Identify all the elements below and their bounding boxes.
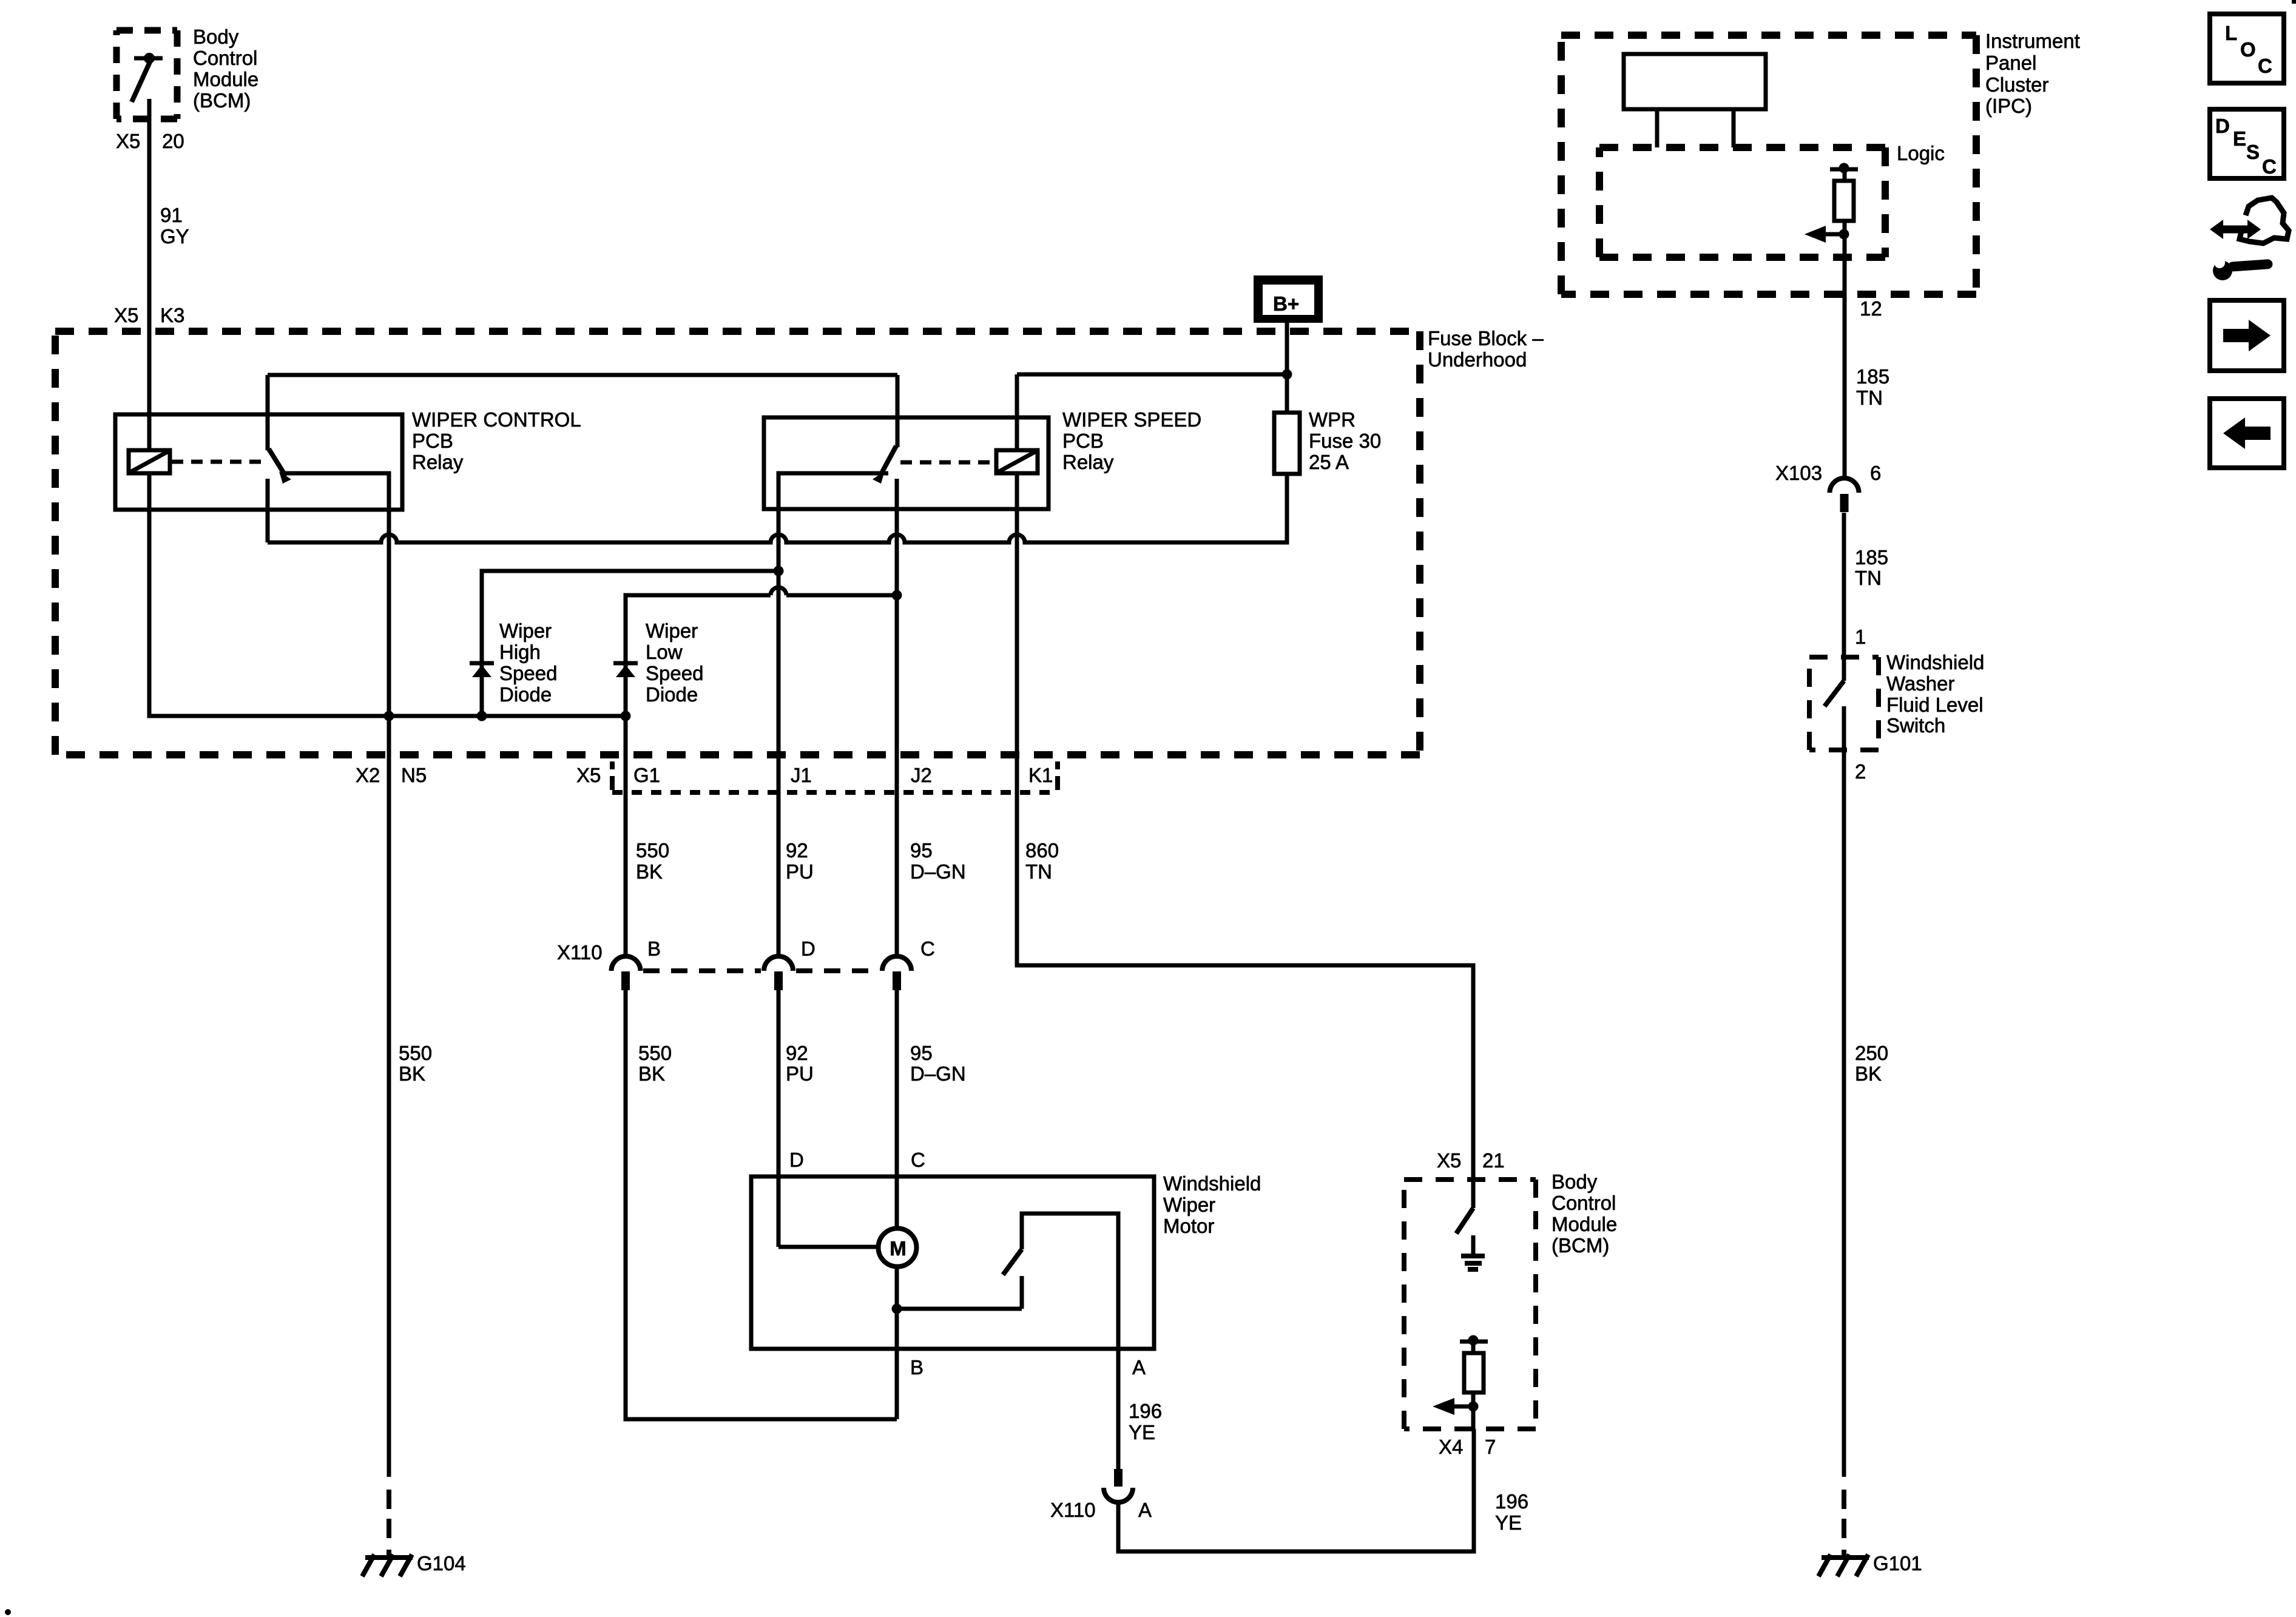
svg-text:X5: X5 [114, 304, 138, 326]
svg-text:K1: K1 [1028, 764, 1053, 786]
svg-text:High: High [499, 641, 541, 663]
svg-text:550: 550 [638, 1042, 672, 1064]
svg-text:GY: GY [160, 225, 189, 248]
svg-text:(BCM): (BCM) [193, 89, 251, 112]
svg-text:X110: X110 [557, 941, 603, 964]
svg-text:Windshield: Windshield [1886, 651, 1984, 673]
svg-text:Diode: Diode [499, 683, 552, 706]
svg-text:X110: X110 [1050, 1499, 1096, 1521]
svg-text:C: C [2262, 155, 2277, 178]
svg-text:12: 12 [1860, 297, 1882, 320]
svg-text:6: 6 [1870, 462, 1881, 484]
svg-text:Wiper: Wiper [499, 619, 552, 642]
svg-text:860: 860 [1025, 839, 1059, 862]
svg-text:G104: G104 [417, 1552, 466, 1575]
svg-text:X5: X5 [1437, 1149, 1461, 1172]
svg-text:185: 185 [1856, 365, 1889, 388]
svg-text:250: 250 [1855, 1042, 1888, 1064]
svg-text:O: O [2240, 38, 2256, 61]
svg-text:B: B [910, 1356, 923, 1379]
svg-text:Module: Module [1551, 1213, 1617, 1235]
svg-text:D: D [2215, 115, 2230, 137]
svg-text:7: 7 [1485, 1436, 1496, 1458]
svg-text:BK: BK [1855, 1062, 1882, 1085]
svg-text:Speed: Speed [646, 662, 703, 684]
svg-text:550: 550 [636, 839, 669, 862]
svg-text:196: 196 [1129, 1400, 1162, 1422]
svg-text:1: 1 [1855, 626, 1866, 648]
svg-text:B: B [647, 937, 661, 960]
svg-text:WIPER CONTROL: WIPER CONTROL [412, 408, 581, 431]
svg-text:TN: TN [1856, 387, 1883, 409]
svg-text:Instrument: Instrument [1985, 30, 2080, 52]
svg-text:95: 95 [910, 839, 933, 862]
svg-text:PCB: PCB [412, 430, 453, 452]
svg-text:Fuse Block –: Fuse Block – [1428, 327, 1544, 349]
svg-text:Washer: Washer [1886, 672, 1954, 695]
svg-text:21: 21 [1482, 1149, 1505, 1172]
svg-text:91: 91 [160, 204, 183, 226]
svg-text:X2: X2 [356, 764, 380, 786]
svg-text:C: C [2258, 55, 2272, 77]
svg-text:550: 550 [399, 1042, 432, 1064]
svg-text:YE: YE [1129, 1421, 1155, 1443]
svg-text:Relay: Relay [1062, 451, 1114, 473]
svg-text:X4: X4 [1439, 1436, 1463, 1458]
svg-text:D: D [789, 1149, 804, 1171]
svg-text:B+: B+ [1273, 292, 1299, 315]
svg-text:Fuse 30: Fuse 30 [1309, 430, 1381, 452]
svg-text:X5: X5 [116, 130, 140, 152]
svg-text:BK: BK [636, 860, 663, 883]
svg-text:L: L [2225, 22, 2237, 44]
svg-text:PU: PU [786, 1062, 814, 1085]
svg-text:Relay: Relay [412, 451, 464, 473]
svg-text:Fluid Level: Fluid Level [1886, 694, 1984, 716]
svg-text:(BCM): (BCM) [1551, 1234, 1609, 1257]
svg-text:N5: N5 [401, 764, 427, 786]
svg-text:Wiper: Wiper [1163, 1193, 1215, 1216]
svg-text:PCB: PCB [1062, 430, 1104, 452]
svg-text:Body: Body [193, 25, 239, 48]
svg-text:Motor: Motor [1163, 1215, 1214, 1237]
svg-text:Diode: Diode [646, 683, 698, 706]
svg-text:(IPC): (IPC) [1985, 95, 2032, 117]
svg-text:J2: J2 [911, 764, 932, 786]
svg-text:C: C [911, 1149, 925, 1171]
svg-text:PU: PU [786, 860, 814, 883]
svg-text:WIPER SPEED: WIPER SPEED [1062, 408, 1201, 431]
svg-text:92: 92 [786, 839, 808, 862]
svg-text:25 A: 25 A [1309, 451, 1349, 473]
svg-text:G1: G1 [633, 764, 660, 786]
svg-text:95: 95 [910, 1042, 933, 1064]
svg-text:J1: J1 [791, 764, 812, 786]
svg-text:Cluster: Cluster [1985, 73, 2049, 96]
svg-text:185: 185 [1855, 546, 1888, 569]
svg-text:Control: Control [193, 47, 257, 69]
svg-text:X5: X5 [576, 764, 601, 786]
svg-text:2: 2 [1855, 760, 1866, 783]
svg-text:92: 92 [786, 1042, 808, 1064]
svg-text:Underhood: Underhood [1428, 348, 1527, 371]
svg-text:Control: Control [1551, 1192, 1616, 1214]
svg-text:YE: YE [1495, 1511, 1522, 1534]
svg-text:Switch: Switch [1886, 714, 1945, 737]
svg-text:BK: BK [638, 1062, 665, 1085]
svg-text:D–GN: D–GN [910, 860, 966, 883]
svg-text:D: D [801, 937, 815, 960]
svg-text:X103: X103 [1775, 462, 1822, 484]
svg-text:E: E [2233, 127, 2246, 150]
svg-text:A: A [1132, 1356, 1146, 1379]
svg-text:Speed: Speed [499, 662, 557, 684]
svg-text:K3: K3 [160, 304, 184, 326]
svg-text:Wiper: Wiper [646, 619, 698, 642]
svg-text:WPR: WPR [1309, 408, 1356, 431]
svg-text:Body: Body [1551, 1170, 1598, 1193]
svg-text:M: M [890, 1237, 907, 1260]
svg-text:Logic: Logic [1897, 142, 1945, 164]
svg-text:196: 196 [1495, 1490, 1528, 1513]
svg-text:C: C [920, 937, 935, 960]
svg-text:BK: BK [399, 1062, 425, 1085]
svg-text:G101: G101 [1873, 1552, 1922, 1575]
svg-text:Module: Module [193, 68, 258, 90]
svg-text:D–GN: D–GN [910, 1062, 966, 1085]
svg-text:TN: TN [1855, 567, 1882, 589]
svg-text:S: S [2246, 141, 2260, 163]
svg-text:Windshield: Windshield [1163, 1172, 1261, 1195]
svg-text:Panel: Panel [1985, 52, 2036, 74]
svg-text:Low: Low [646, 641, 683, 663]
svg-text:TN: TN [1025, 860, 1052, 883]
svg-text:20: 20 [162, 130, 184, 152]
svg-text:A: A [1138, 1499, 1152, 1521]
